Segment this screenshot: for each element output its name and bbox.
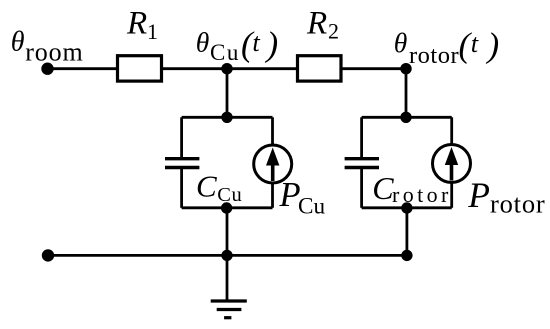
wire: left capacitor branch upper vertical <box>180 117 183 157</box>
wire: right capacitor branch lower vertical <box>360 169 363 208</box>
current source P_Cu <box>254 145 292 183</box>
svg-text:C: C <box>196 168 217 203</box>
capacitor C_rotor plates <box>345 159 379 168</box>
svg-text:): ) <box>265 25 279 64</box>
label theta_room <box>11 27 84 67</box>
svg-text:rotor: rotor <box>409 42 459 69</box>
wire: left branch bottom rail <box>182 206 273 209</box>
resistor R2 <box>298 56 342 81</box>
svg-text:t: t <box>471 28 479 58</box>
svg-text:1: 1 <box>147 19 158 44</box>
wire: top rail from theta_room node to R1 <box>47 67 117 70</box>
node: left branch bottom junction <box>221 202 232 213</box>
svg-text:t: t <box>252 27 260 57</box>
svg-text:Cu: Cu <box>298 193 325 219</box>
svg-text:θ: θ <box>196 26 210 57</box>
label theta_Cu(t) <box>196 25 278 66</box>
svg-text:rotor: rotor <box>392 182 452 207</box>
label R1 <box>126 6 158 44</box>
ground symbol <box>211 255 247 317</box>
wire: vertical from theta_rotor down to right branch junction <box>405 69 408 118</box>
svg-text:2: 2 <box>328 19 339 44</box>
node theta_room terminal dot <box>41 62 53 74</box>
wire: left branch bottom junction down to ground rail <box>226 208 229 255</box>
svg-text:P: P <box>467 175 490 215</box>
svg-text:rotor: rotor <box>490 189 546 219</box>
node: bottom-left terminal dot <box>42 249 54 261</box>
node theta_rotor junction dot <box>400 63 411 74</box>
label P_rotor <box>467 175 545 219</box>
wire: R2 to node theta_rotor <box>343 67 407 70</box>
current source P_rotor <box>433 145 471 183</box>
wire: right branch bottom junction down to ground rail <box>405 208 408 255</box>
wire: R1 to node theta_Cu <box>163 67 227 70</box>
wire: right branch bottom rail <box>362 206 452 209</box>
wire: bottom ground rail <box>48 254 407 257</box>
wire: right source branch lower vertical <box>450 182 453 208</box>
svg-text:Cu: Cu <box>217 184 242 206</box>
resistor R1 <box>118 56 162 81</box>
svg-text:θ: θ <box>11 27 25 58</box>
node: left branch top junction <box>221 112 232 123</box>
wire: right branch top rail <box>362 116 452 119</box>
svg-text:R: R <box>306 6 327 42</box>
svg-text:θ: θ <box>394 27 408 58</box>
node theta_Cu junction dot <box>221 63 232 74</box>
svg-text:C: C <box>372 170 394 206</box>
node: bottom right junction <box>401 250 412 261</box>
wire: left source branch upper vertical <box>271 117 274 146</box>
svg-text:R: R <box>126 6 147 42</box>
node: bottom center junction <box>221 250 232 261</box>
wire: right source branch upper vertical <box>450 117 453 145</box>
label theta_rotor(t) <box>394 26 499 70</box>
label R2 <box>306 6 339 44</box>
wire: vertical from theta_Cu down to left branch junction <box>226 69 229 118</box>
svg-text:): ) <box>486 26 500 65</box>
label C_Cu <box>196 168 242 205</box>
label P_Cu <box>279 176 326 219</box>
wire: left source branch lower vertical <box>271 182 274 208</box>
label C_rotor <box>372 170 451 207</box>
wire: left branch top rail <box>182 116 273 119</box>
node: right branch top junction <box>400 112 411 123</box>
svg-text:Cu: Cu <box>210 40 240 65</box>
wire: right capacitor branch upper vertical <box>360 117 363 157</box>
wire: left capacitor branch lower vertical <box>180 169 183 208</box>
capacitor C_Cu plates <box>165 159 199 168</box>
wire: theta_Cu to R2 <box>227 67 297 70</box>
svg-text:room: room <box>25 37 83 66</box>
node: right branch bottom junction <box>401 202 412 213</box>
